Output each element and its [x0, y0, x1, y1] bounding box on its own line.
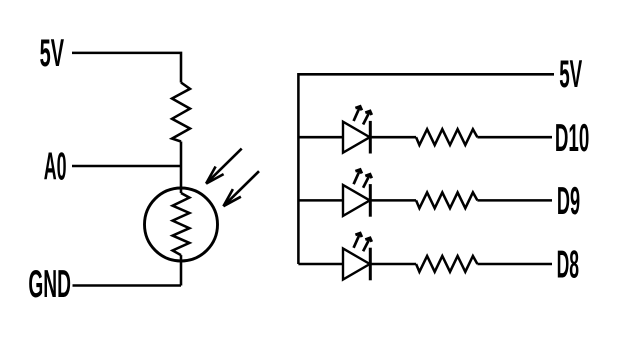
LED D9 light arrow left	[354, 170, 362, 185]
LED D8 triangle	[343, 249, 370, 280]
photoresistor LDR1 element	[173, 193, 190, 255]
LED D9 triangle	[343, 185, 370, 216]
svg-text:D9: D9	[557, 180, 580, 223]
wire 5V rail to resistor top	[72, 53, 181, 83]
resistor for D10	[416, 129, 477, 145]
svg-text:D10: D10	[555, 117, 589, 160]
wire 5V bus (right rail)	[298, 74, 554, 264]
LED D8 light arrow right	[363, 238, 372, 251]
LED D8 light arrow left	[354, 233, 362, 248]
svg-text:5V: 5V	[40, 32, 64, 75]
LED D10 light arrow left	[354, 106, 362, 121]
wire resistor to D9 pin	[477, 199, 552, 202]
LED D9 light arrow right	[363, 174, 372, 187]
wire A0 tap	[72, 165, 181, 168]
LED D9 cathode bar	[369, 184, 372, 217]
photoresistor LDR1 body	[145, 188, 218, 261]
wire photocell bottom to GND	[180, 255, 183, 285]
LED D10 triangle	[343, 122, 370, 153]
wire LED D9 to resistor	[370, 199, 416, 202]
wire GND	[73, 284, 182, 287]
LED D10 cathode bar	[369, 121, 372, 154]
wire resistor bottom to photocell	[180, 142, 183, 194]
light arrow lower (incident light)	[223, 171, 259, 206]
resistor R1 (divider top)	[172, 83, 190, 142]
resistor for D8	[416, 256, 477, 272]
LED D10 light arrow right	[363, 111, 372, 124]
LED D8 cathode bar	[369, 248, 372, 281]
light arrow upper (incident light)	[206, 149, 242, 184]
wire bus to LED D9 row	[298, 199, 342, 202]
wire resistor to D8 pin	[477, 263, 552, 266]
wire bus to LED D10 row	[298, 136, 342, 139]
svg-text:GND: GND	[28, 263, 71, 306]
wire resistor to D10 pin	[477, 136, 552, 139]
svg-text:D8: D8	[557, 244, 579, 287]
wire LED D8 to resistor	[370, 263, 416, 266]
resistor for D9	[416, 192, 477, 208]
svg-text:5V: 5V	[559, 53, 582, 96]
svg-text:A0: A0	[44, 145, 67, 188]
wire LED D10 to resistor	[370, 136, 416, 139]
wire bus to LED D8 row	[298, 263, 342, 266]
